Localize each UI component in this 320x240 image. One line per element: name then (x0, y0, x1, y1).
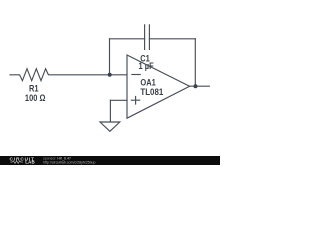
node junction at output (194, 84, 198, 88)
wire minus-input (110, 74, 128, 76)
op-amp plus pin sign (131, 97, 139, 105)
op-amp OA1 (127, 55, 190, 118)
resistor R1 (10, 69, 110, 81)
watermark bar (0, 156, 220, 165)
wire plus-input (110, 99, 127, 101)
svg-text:1 µF: 1 µF (139, 61, 154, 71)
capacitor C1 (145, 25, 150, 50)
svg-text:http://circuitlab.com/c/28yfx2: http://circuitlab.com/c/28yfx25bup (43, 159, 96, 164)
op-amp minus pin sign (132, 74, 140, 76)
wire feedback left vertical (109, 39, 111, 75)
node junction at R1/opamp/feedback (108, 73, 112, 77)
svg-text:100 Ω: 100 Ω (25, 93, 46, 103)
svg-text:R1: R1 (29, 84, 39, 94)
svg-text:TL081: TL081 (140, 86, 163, 97)
wire plus to ground (109, 100, 111, 121)
svg-text:LAB: LAB (25, 160, 35, 165)
watermark logo resistor glyph (10, 161, 23, 164)
wire feedback top right (149, 38, 195, 40)
wire feedback top left (110, 38, 145, 40)
wire output (190, 85, 210, 87)
ground (100, 122, 120, 131)
wire feedback right vertical (194, 39, 196, 86)
